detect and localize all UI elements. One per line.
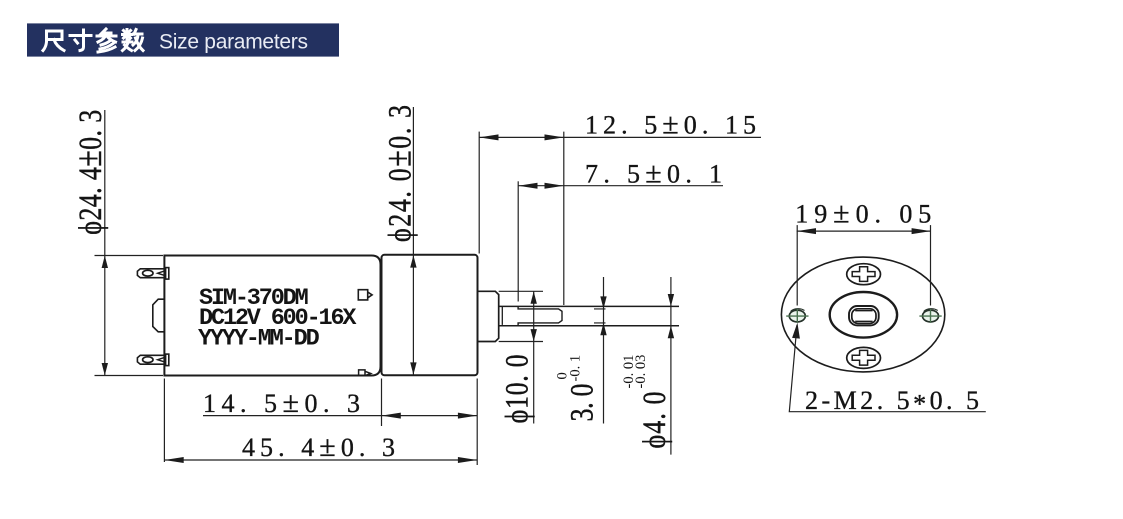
- arrow 14.5 right: [458, 413, 477, 419]
- char 尺: [43, 31, 64, 51]
- flat extension stubs for 3.0 dim: [594, 309, 606, 323]
- svg-text:Size parameters: Size parameters: [159, 31, 308, 54]
- dim 12.5 ext left: [478, 132, 480, 254]
- vent flag bottom: [359, 370, 371, 376]
- shaft stadium inner: [852, 309, 876, 324]
- dim 3.0 line: [603, 277, 605, 424]
- dim 7.5 line: [518, 185, 723, 187]
- arrow φ24.0 up: [410, 255, 416, 267]
- shaft step ring at collar: [501, 307, 503, 325]
- svg-text:YYYY-MM-DD: YYYY-MM-DD: [198, 326, 320, 353]
- svg-text:45. 4±0. 3: 45. 4±0. 3: [242, 430, 395, 463]
- dim 45.4 line: [164, 459, 477, 461]
- arrow 7.5 left: [518, 183, 537, 189]
- shaft collar: [478, 291, 499, 341]
- motor body: [164, 256, 380, 376]
- dim 19 ext left: [796, 225, 798, 305]
- terminal top clip: [166, 268, 169, 280]
- mount hole right: [919, 309, 941, 323]
- center boss ellipse: [830, 292, 897, 338]
- arrow φ24.4 up: [102, 256, 108, 268]
- dim φ24.4 ext bottom: [95, 375, 164, 377]
- terminal top crimp wedge: [158, 271, 166, 276]
- title Chinese text 尺寸参数 (vector strokes): [43, 29, 143, 52]
- dim 14.5 line: [203, 415, 477, 417]
- dim 19 line: [797, 225, 931, 305]
- arrow φ10 up: [531, 291, 537, 303]
- vent flag top: [358, 290, 372, 300]
- arrow 19 left: [797, 228, 816, 234]
- arrow 45.4 left: [164, 457, 183, 463]
- screw top outer: [847, 264, 881, 285]
- svg-text:ϕ24. 0±0. 3: ϕ24. 0±0. 3: [377, 105, 419, 242]
- gearbox: [382, 255, 478, 375]
- screw bottom cross: [852, 350, 875, 365]
- thread arc left: [791, 309, 805, 312]
- motor label text: [198, 285, 357, 353]
- screw bottom outer: [847, 347, 881, 368]
- svg-text:ϕ4. 0: ϕ4. 0: [636, 392, 673, 449]
- terminal bottom crimp wedge: [158, 357, 166, 362]
- svg-text:3. 0: 3. 0: [563, 384, 600, 422]
- shaft flats chords: [855, 311, 872, 322]
- dim text φ4.0 rotated with tolerance: [621, 355, 673, 449]
- dim 45.4/14.5 ext right: [476, 379, 478, 466]
- thread arc right: [924, 309, 938, 312]
- arrow 45.4 right: [458, 457, 477, 463]
- dim φ10 ext top: [499, 290, 543, 292]
- dim φ24.0 line: [412, 107, 414, 375]
- arrow φ10 down: [531, 329, 537, 341]
- mount hole left: [786, 309, 808, 323]
- dim 19 ext right: [930, 225, 932, 305]
- arrow 12.5 left: [479, 134, 498, 140]
- dim φ10 ext bottom: [499, 341, 543, 343]
- arrow 19 right: [912, 228, 931, 234]
- dim φ10 line: [533, 291, 535, 423]
- shaft outline: [499, 306, 679, 325]
- arrow 3.0 down-point: [600, 296, 606, 308]
- dim 12.5/7.5 ext right: [563, 132, 565, 305]
- svg-text:7. 5±0. 1: 7. 5±0. 1: [585, 157, 722, 190]
- arrow φ24.4 down: [102, 363, 108, 375]
- crosshair left: [786, 309, 808, 323]
- terminal bottom hole: [143, 357, 153, 363]
- leader line for M2.5: [789, 325, 986, 412]
- shaft flat (D-cut): [518, 307, 562, 326]
- svg-text:ϕ10. 0: ϕ10. 0: [499, 354, 536, 423]
- crosshair right: [919, 309, 941, 323]
- svg-text:-0. 03: -0. 03: [633, 355, 649, 389]
- arrow φ24.0 down: [410, 362, 416, 374]
- char 数: [123, 30, 144, 51]
- svg-text:19±0. 05: 19±0. 05: [795, 197, 931, 230]
- arrow 14.5 left: [382, 413, 401, 419]
- left bump: [153, 299, 165, 332]
- dim 14.5 ext left: [381, 379, 383, 427]
- dim 45.4 ext left: [163, 379, 165, 463]
- terminal bottom tab: [137, 355, 165, 364]
- shaft stadium outer: [849, 306, 879, 325]
- arrow φ4 up-point: [668, 326, 674, 338]
- leader arrow: [792, 323, 800, 339]
- face ellipse: [781, 257, 944, 372]
- dim text 3.0 rotated with tolerance: [554, 355, 600, 422]
- char 参: [97, 29, 116, 52]
- svg-text:ϕ24. 4±0. 3: ϕ24. 4±0. 3: [68, 110, 110, 235]
- arrow 3.0 up-point: [600, 323, 606, 335]
- arrow 12.5 right: [545, 134, 564, 140]
- title badge: [27, 23, 339, 56]
- screw top cross: [852, 267, 875, 282]
- terminal bottom clip: [166, 354, 169, 366]
- svg-text:12. 5±0. 15: 12. 5±0. 15: [585, 107, 756, 140]
- dim 12.5 line: [479, 136, 761, 138]
- char 寸: [70, 30, 91, 51]
- arrow 7.5 right: [545, 183, 564, 189]
- dim φ4 line: [670, 277, 672, 455]
- arrowheads: [102, 134, 675, 463]
- dim φ24.4 line: [104, 110, 106, 375]
- dim 7.5 ext left: [517, 181, 519, 301]
- terminal top hole: [143, 270, 153, 276]
- arrow φ4 down-point: [668, 294, 674, 306]
- svg-text:-0. 1: -0. 1: [567, 355, 583, 382]
- terminal top tab: [137, 269, 165, 278]
- dim φ24.4 ext top: [95, 255, 164, 257]
